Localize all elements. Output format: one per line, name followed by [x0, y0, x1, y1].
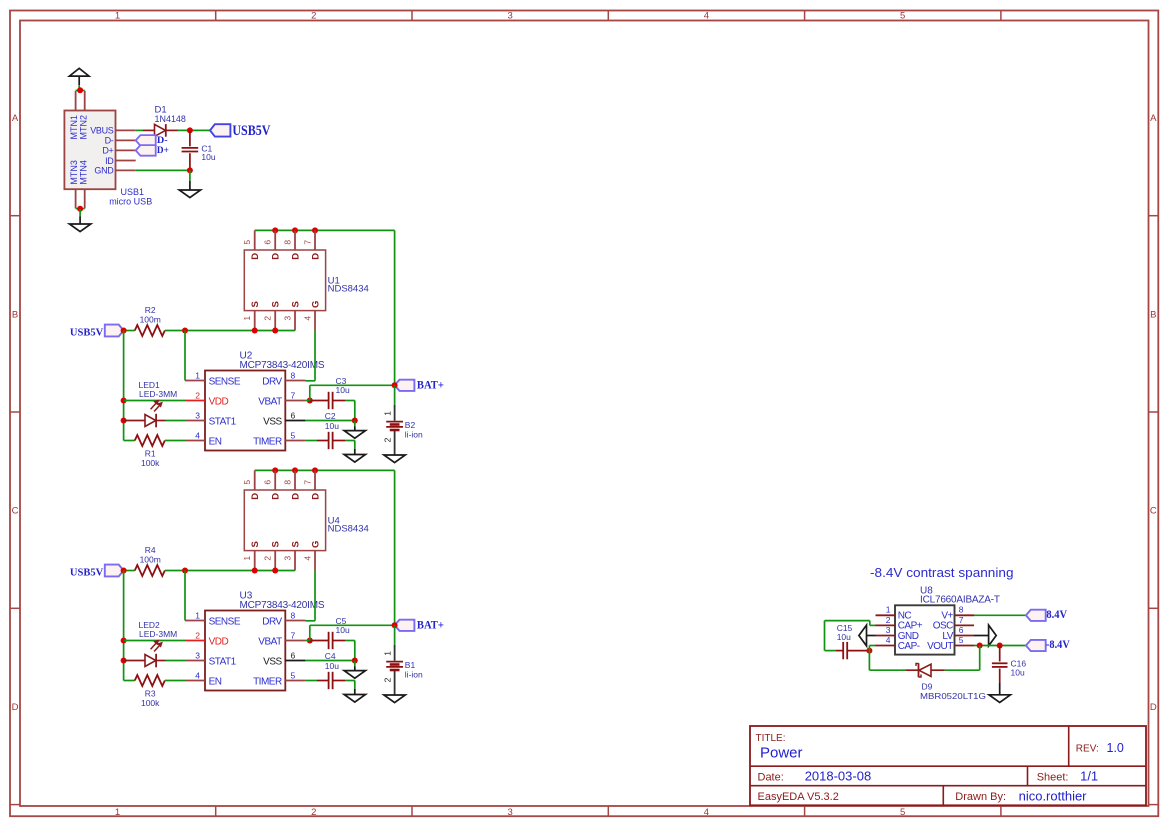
svg-text:100m: 100m — [140, 315, 161, 325]
svg-text:TIMER: TIMER — [253, 676, 282, 687]
svg-text:10u: 10u — [837, 632, 851, 642]
svg-text:NDS8434: NDS8434 — [328, 524, 369, 535]
svg-text:micro USB: micro USB — [109, 196, 152, 206]
svg-text:VBAT: VBAT — [258, 396, 282, 407]
svg-text:2: 2 — [263, 316, 273, 321]
svg-text:100k: 100k — [141, 698, 160, 708]
svg-text:VOUT: VOUT — [927, 641, 953, 652]
svg-text:EasyEDA V5.3.2: EasyEDA V5.3.2 — [758, 791, 839, 803]
svg-text:REV:: REV: — [1076, 744, 1099, 755]
svg-text:VDD: VDD — [209, 396, 229, 407]
svg-text:C2: C2 — [325, 411, 336, 421]
svg-text:1: 1 — [195, 370, 200, 380]
svg-text:7: 7 — [959, 615, 964, 625]
svg-text:D: D — [12, 702, 19, 713]
svg-text:2: 2 — [263, 556, 273, 561]
svg-text:USB5V: USB5V — [232, 123, 270, 139]
svg-text:D: D — [250, 493, 261, 500]
svg-text:3: 3 — [283, 316, 293, 321]
svg-text:TIMER: TIMER — [253, 436, 282, 447]
svg-text:100m: 100m — [140, 555, 161, 565]
svg-text:4: 4 — [303, 316, 313, 321]
svg-text:D: D — [310, 253, 321, 260]
svg-text:4: 4 — [195, 430, 200, 440]
svg-text:SENSE: SENSE — [209, 616, 241, 627]
svg-text:S: S — [250, 301, 261, 307]
svg-text:6: 6 — [263, 480, 273, 485]
svg-text:Drawn By:: Drawn By: — [955, 791, 1006, 803]
svg-text:S: S — [290, 541, 301, 547]
svg-text:2: 2 — [886, 615, 891, 625]
svg-text:10u: 10u — [201, 152, 215, 162]
svg-text:8: 8 — [291, 370, 296, 380]
svg-text:1: 1 — [195, 610, 200, 620]
svg-text:8.4V: 8.4V — [1046, 609, 1067, 621]
svg-text:D: D — [1150, 702, 1157, 713]
svg-text:D: D — [250, 253, 261, 260]
svg-text:MCP73843-420IMS: MCP73843-420IMS — [240, 360, 325, 371]
svg-text:10u: 10u — [325, 421, 339, 431]
svg-text:4: 4 — [303, 556, 313, 561]
svg-text:5: 5 — [291, 670, 296, 680]
svg-text:STAT1: STAT1 — [209, 416, 237, 427]
svg-text:1N4148: 1N4148 — [155, 114, 186, 125]
svg-text:D+: D+ — [102, 146, 113, 156]
svg-text:D: D — [271, 493, 282, 500]
svg-text:5: 5 — [242, 240, 252, 245]
svg-text:LED-3MM: LED-3MM — [139, 629, 177, 639]
svg-text:TITLE:: TITLE: — [756, 733, 786, 744]
svg-text:4: 4 — [704, 11, 709, 22]
svg-text:1: 1 — [886, 605, 891, 615]
svg-text:VBAT: VBAT — [258, 636, 282, 647]
svg-text:D+: D+ — [157, 146, 169, 156]
svg-text:VDD: VDD — [209, 636, 229, 647]
svg-text:1: 1 — [382, 651, 392, 656]
svg-text:VBUS: VBUS — [90, 126, 114, 136]
svg-text:7: 7 — [291, 390, 296, 400]
svg-text:S: S — [290, 301, 301, 307]
svg-text:2: 2 — [311, 807, 316, 818]
svg-text:li-ion: li-ion — [405, 670, 423, 680]
svg-text:6: 6 — [959, 625, 964, 635]
svg-text:10u: 10u — [336, 385, 350, 395]
svg-text:Sheet:: Sheet: — [1037, 771, 1069, 783]
svg-text:7: 7 — [303, 480, 313, 485]
svg-text:NDS8434: NDS8434 — [328, 284, 369, 295]
svg-text:D-: D- — [157, 136, 168, 146]
svg-text:-8.4V contrast spanning: -8.4V contrast spanning — [870, 566, 1014, 580]
svg-text:DRV: DRV — [262, 616, 282, 627]
svg-text:2: 2 — [382, 437, 392, 442]
svg-text:2: 2 — [382, 677, 392, 682]
svg-text:MTN4: MTN4 — [78, 160, 88, 185]
svg-text:6: 6 — [263, 240, 273, 245]
svg-text:10u: 10u — [336, 625, 350, 635]
svg-text:B: B — [12, 309, 18, 320]
svg-text:D: D — [290, 493, 301, 500]
svg-text:5: 5 — [900, 807, 905, 818]
svg-text:S: S — [271, 301, 282, 307]
svg-text:1: 1 — [242, 556, 252, 561]
svg-text:S: S — [250, 541, 261, 547]
svg-text:4: 4 — [704, 807, 709, 818]
svg-text:3: 3 — [886, 625, 891, 635]
svg-text:VSS: VSS — [263, 416, 282, 427]
svg-text:3: 3 — [507, 807, 512, 818]
svg-text:A: A — [12, 113, 19, 124]
svg-text:5: 5 — [959, 635, 964, 645]
svg-text:5: 5 — [242, 480, 252, 485]
svg-text:8: 8 — [291, 610, 296, 620]
svg-text:7: 7 — [291, 630, 296, 640]
svg-text:li-ion: li-ion — [405, 430, 423, 440]
svg-text:ID: ID — [105, 156, 114, 166]
svg-text:1: 1 — [115, 807, 120, 818]
svg-text:6: 6 — [291, 410, 296, 420]
svg-text:10u: 10u — [1011, 668, 1025, 678]
svg-text:D: D — [271, 253, 282, 260]
svg-text:2018-03-08: 2018-03-08 — [805, 768, 872, 783]
svg-text:LED-3MM: LED-3MM — [139, 389, 177, 399]
svg-text:3: 3 — [195, 650, 200, 660]
svg-text:-8.4V: -8.4V — [1046, 639, 1070, 651]
svg-text:5: 5 — [291, 430, 296, 440]
svg-text:1.0: 1.0 — [1107, 741, 1124, 755]
svg-text:1: 1 — [382, 411, 392, 416]
svg-text:Power: Power — [760, 745, 803, 762]
svg-text:MCP73843-420IMS: MCP73843-420IMS — [240, 600, 325, 611]
svg-text:USB5V: USB5V — [70, 567, 103, 579]
svg-text:6: 6 — [291, 650, 296, 660]
svg-text:5: 5 — [900, 11, 905, 22]
svg-text:8: 8 — [283, 240, 293, 245]
svg-text:STAT1: STAT1 — [209, 656, 237, 667]
svg-text:S: S — [271, 541, 282, 547]
svg-text:1: 1 — [115, 11, 120, 22]
svg-text:G: G — [310, 301, 321, 308]
svg-text:4: 4 — [195, 670, 200, 680]
svg-text:VSS: VSS — [263, 656, 282, 667]
svg-text:GND: GND — [94, 166, 114, 176]
svg-text:C4: C4 — [325, 651, 336, 661]
svg-text:2: 2 — [195, 630, 200, 640]
svg-text:2: 2 — [311, 11, 316, 22]
svg-text:7: 7 — [303, 240, 313, 245]
svg-text:10u: 10u — [325, 661, 339, 671]
svg-text:B1: B1 — [405, 660, 416, 670]
svg-text:8: 8 — [283, 480, 293, 485]
svg-text:MTN2: MTN2 — [78, 115, 88, 140]
svg-text:EN: EN — [209, 676, 222, 687]
svg-text:DRV: DRV — [262, 376, 282, 387]
svg-text:B: B — [1150, 309, 1156, 320]
svg-text:D: D — [310, 493, 321, 500]
svg-text:8: 8 — [959, 605, 964, 615]
svg-text:4: 4 — [886, 635, 891, 645]
svg-text:nico.rotthier: nico.rotthier — [1019, 788, 1088, 803]
svg-text:2: 2 — [195, 390, 200, 400]
svg-text:USB5V: USB5V — [70, 327, 103, 339]
svg-text:3: 3 — [507, 11, 512, 22]
svg-text:C: C — [12, 506, 19, 517]
svg-text:C: C — [1150, 506, 1157, 517]
svg-text:1/1: 1/1 — [1080, 768, 1098, 783]
svg-text:B2: B2 — [405, 420, 416, 430]
svg-text:3: 3 — [283, 556, 293, 561]
svg-text:EN: EN — [209, 436, 222, 447]
svg-text:CAP-: CAP- — [898, 641, 920, 652]
svg-text:D-: D- — [105, 136, 114, 146]
svg-text:100k: 100k — [141, 458, 160, 468]
svg-text:D: D — [290, 253, 301, 260]
svg-text:3: 3 — [195, 410, 200, 420]
svg-text:A: A — [1150, 113, 1157, 124]
svg-text:1: 1 — [242, 316, 252, 321]
svg-text:SENSE: SENSE — [209, 376, 241, 387]
svg-text:MBR0520LT1G: MBR0520LT1G — [920, 691, 986, 701]
svg-text:BAT+: BAT+ — [417, 619, 444, 631]
svg-text:G: G — [310, 541, 321, 548]
svg-text:Date:: Date: — [758, 771, 784, 783]
svg-text:BAT+: BAT+ — [417, 379, 444, 391]
